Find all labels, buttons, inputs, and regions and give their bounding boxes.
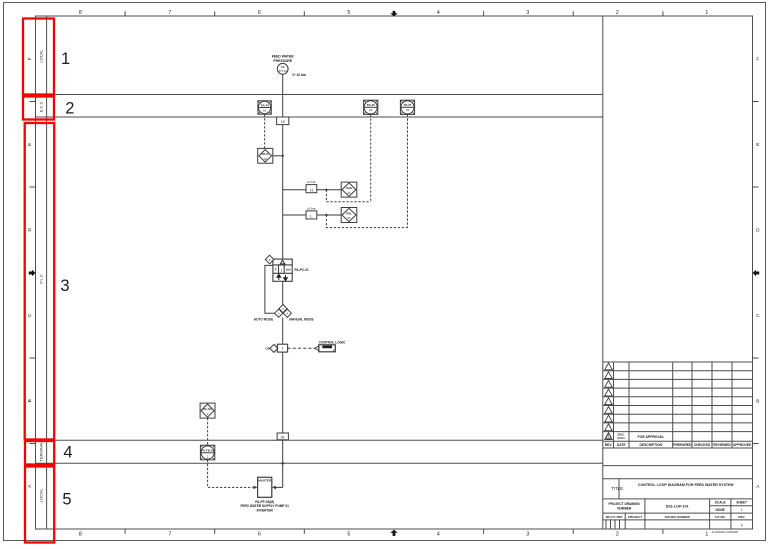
node: junction on main line [282, 155, 284, 157]
svg-text:4: 4 [437, 10, 440, 16]
svg-text:LOCAL: LOCAL [38, 488, 43, 502]
wire: box 10 down to controller [282, 125, 284, 260]
wire: dashed terminal square to MASTER box [208, 460, 254, 488]
svg-text:MASTER: MASTER [258, 479, 272, 483]
svg-text:REV.: REV. [738, 515, 745, 519]
alarm square PAH [341, 182, 357, 197]
revision header row [605, 443, 752, 447]
zone tick marks left [30, 102, 36, 444]
svg-text:DS1-LOP-101: DS1-LOP-101 [666, 505, 689, 509]
svg-text:01: 01 [263, 108, 267, 112]
svg-text:5: 5 [347, 10, 350, 16]
alarm square PAL [341, 208, 357, 223]
svg-text:5: 5 [62, 490, 71, 508]
wire: T box down to box 01 [282, 352, 284, 433]
diamond A on controller corner [265, 255, 274, 264]
ECS shared display instrument PA-PI 01 b [364, 100, 378, 114]
svg-text:K: K [275, 268, 278, 272]
node: junction L branch [325, 214, 327, 216]
svg-text:SHEET: SHEET [736, 501, 747, 505]
svg-text:2: 2 [207, 455, 209, 459]
center mark arrow top [390, 11, 398, 17]
wire: H box to alarm square [317, 189, 341, 191]
svg-text:ISSUED NUMBER: ISSUED NUMBER [665, 515, 691, 519]
swimlane label column divider [46, 16, 48, 529]
svg-text:01: 01 [348, 216, 352, 220]
svg-text:LOCAL: LOCAL [39, 49, 44, 63]
svg-text:PA-PC-01: PA-PC-01 [295, 268, 310, 272]
svg-text:PA-PI: PA-PI [261, 103, 269, 107]
svg-text:CONTROL LOOP DIAGRAM FOR FEED: CONTROL LOOP DIAGRAM FOR FEED WATER SYST… [638, 483, 734, 487]
svg-text:APPROVED: APPROVED [733, 443, 752, 447]
svg-text:2: 2 [207, 412, 209, 416]
revision triangles [605, 363, 613, 440]
svg-text:1: 1 [705, 10, 708, 16]
lower block horizontal lines [603, 465, 753, 467]
wire: L box to alarm square [317, 214, 341, 216]
wire: down-right elbow into MASTER box [276, 486, 283, 488]
multi unit row [606, 515, 745, 519]
svg-text:PA-PI: PA-PI [404, 103, 412, 107]
svg-text:6: 6 [258, 532, 261, 538]
svg-text:PA-IL: PA-IL [262, 152, 270, 156]
svg-text:7: 7 [168, 532, 171, 538]
svg-text:01: 01 [406, 108, 410, 112]
revision table column lines [613, 362, 615, 448]
swimlane rotated labels [38, 49, 43, 502]
svg-text:3: 3 [526, 10, 529, 16]
svg-text:D: D [27, 228, 33, 232]
wire: interlock to main line [273, 155, 283, 157]
svg-text:PA-PI: PA-PI [367, 103, 375, 107]
svg-text:PRESSURE: PRESSURE [273, 59, 292, 63]
zone letters left [27, 57, 33, 488]
swimlane line ECS top [36, 94, 603, 96]
title cell divider [618, 479, 620, 499]
svg-text:1: 1 [741, 508, 743, 512]
svg-text:3: 3 [526, 532, 529, 538]
ECS shared display instrument PA-PI 01 c [400, 100, 414, 114]
svg-text:H: H [310, 187, 313, 192]
revision table row lines [603, 370, 753, 372]
setpoint box H [306, 185, 317, 193]
wire: instrument a to interlock square [264, 114, 266, 148]
node: junction H branch [325, 189, 327, 191]
svg-text:6: 6 [258, 10, 261, 16]
wire: instrument b down [370, 114, 372, 201]
svg-text:d/dt: d/dt [286, 267, 291, 271]
svg-text:04.01: 04.01 [617, 436, 625, 440]
svg-text:10: 10 [281, 120, 285, 124]
dashed signal wires [265, 114, 408, 227]
svg-text:A: A [269, 258, 271, 262]
svg-text:1: 1 [61, 50, 70, 68]
wire: L alarm branch over to instrument c [326, 215, 407, 228]
svg-text:INVERTER: INVERTER [257, 509, 274, 513]
svg-text:REVIEWED: REVIEWED [713, 443, 731, 447]
svg-text:5: 5 [347, 532, 350, 538]
auto/manual selector diamond cluster [275, 305, 292, 318]
red annotation box 5 [25, 467, 54, 543]
svg-text:DATE: DATE [617, 443, 627, 447]
svg-text:MULTI UNIT: MULTI UNIT [606, 515, 623, 519]
svg-text:TERMINAL: TERMINAL [38, 441, 43, 462]
svg-text:≤2 bar: ≤2 bar [307, 207, 315, 211]
svg-text:FOR APPROVAL: FOR APPROVAL [638, 435, 665, 439]
svg-text:T: T [281, 347, 284, 351]
svg-text:D: D [756, 228, 760, 234]
svg-text:0~10 bar: 0~10 bar [293, 73, 308, 77]
wire: H alarm branch over to instrument b [326, 190, 370, 202]
svg-text:4: 4 [63, 444, 72, 462]
svg-text:C: C [27, 313, 33, 317]
svg-text:C/F NO.: C/F NO. [715, 515, 726, 519]
svg-text:01: 01 [281, 435, 285, 439]
wire: controller feedback loop to selector [265, 265, 275, 313]
svg-text:PA-SC: PA-SC [203, 407, 213, 411]
MASTER inverter box [258, 477, 272, 497]
svg-text:NONE: NONE [716, 508, 725, 512]
svg-text:A: A [286, 311, 288, 315]
wire: controller down to selector cluster [282, 281, 284, 304]
arrowhead into MASTER right [272, 486, 276, 490]
connector triangle [314, 346, 318, 350]
svg-text:PROJECT DRAWING: PROJECT DRAWING [609, 502, 641, 506]
red annotation box 4 [25, 441, 54, 465]
title block left edge [602, 16, 604, 529]
zone tick marks bottom [125, 529, 663, 534]
svg-text:01: 01 [264, 157, 268, 161]
ECS shared display instrument PA-PI 01 a [258, 101, 271, 114]
svg-text:0: 0 [741, 523, 743, 527]
svg-text:DESCRIPTION: DESCRIPTION [640, 443, 663, 447]
setpoint box L [306, 211, 317, 219]
revision table top [603, 361, 753, 363]
svg-text:FEED WATER: FEED WATER [272, 54, 295, 58]
center mark arrow left [29, 270, 36, 277]
svg-text:L: L [310, 214, 313, 219]
svg-text:CONTROL LOGIC: CONTROL LOGIC [319, 341, 346, 345]
svg-text:B: B [756, 399, 759, 405]
svg-text:F: F [27, 57, 33, 60]
wire: dashed to control logic connector [288, 347, 315, 349]
svg-text:PROJECT: PROJECT [628, 515, 642, 519]
project row dividers [644, 499, 646, 529]
svg-text:2: 2 [616, 10, 619, 16]
svg-text:/PT-01: /PT-01 [279, 69, 288, 73]
svg-text:A: A [756, 484, 760, 490]
junction box 01 [277, 433, 288, 440]
svg-text:FEED WATER SUPPLY PUMP 01: FEED WATER SUPPLY PUMP 01 [240, 504, 289, 508]
svg-text:PREPARED: PREPARED [673, 443, 692, 447]
svg-text:CHECKED: CHECKED [694, 443, 711, 447]
svg-text:2: 2 [616, 532, 619, 538]
svg-text:SCALE: SCALE [715, 501, 726, 505]
svg-text:TITLE: TITLE [611, 486, 623, 491]
svg-text:7: 7 [168, 10, 171, 16]
zone tick marks right [753, 102, 759, 444]
svg-text:8: 8 [79, 532, 82, 538]
svg-text:PAL: PAL [346, 211, 352, 215]
svg-text:REV.: REV. [605, 443, 613, 447]
control logic reference box [319, 345, 336, 352]
zone letters right [756, 57, 760, 491]
node: junction main line terminal lane [281, 462, 284, 465]
PLC output square PA-SC [200, 403, 215, 418]
wire: main line to H setpoint box [283, 189, 306, 191]
wire: dashed PLC square down to terminal square [207, 418, 209, 445]
svg-text:01: 01 [369, 108, 373, 112]
red annotation box 1 [23, 19, 54, 95]
svg-text:∫: ∫ [280, 269, 283, 273]
PID controller block PA-PC-01 [273, 259, 292, 281]
svg-text:2: 2 [65, 99, 74, 117]
junction box 10 [277, 117, 289, 125]
svg-text:F: F [756, 57, 759, 63]
wire: box 01 down through terminal lane [282, 440, 284, 488]
swimlane line TERMINAL bottom [36, 462, 603, 464]
arrowhead into MASTER left [253, 486, 257, 490]
svg-text:AUTO MODE: AUTO MODE [254, 318, 273, 322]
multi unit dividers [624, 513, 626, 529]
svg-text:A: A [27, 484, 33, 488]
svg-text:PAH: PAH [346, 186, 352, 190]
red annotation box 2 [23, 97, 54, 120]
svg-text:A: A [278, 311, 280, 315]
svg-text:PA-PP-01(M): PA-PP-01(M) [255, 500, 274, 504]
svg-text:MANUAL MODE: MANUAL MODE [289, 318, 313, 322]
red annotation box 3 [25, 123, 55, 440]
svg-text:4: 4 [437, 532, 440, 538]
zone tick marks top [125, 11, 663, 16]
svg-text:≥7 bar: ≥7 bar [307, 180, 315, 184]
svg-text:3: 3 [60, 277, 69, 295]
svg-text:1: 1 [705, 532, 708, 538]
svg-text:E.C.S: E.C.S [39, 101, 44, 112]
swimlane line ECS bottom [36, 116, 603, 118]
svg-text:E: E [756, 142, 759, 148]
svg-text:NUMBER: NUMBER [617, 506, 632, 510]
center mark arrow right [753, 270, 760, 277]
svg-text:PA-TB-01: PA-TB-01 [201, 449, 215, 453]
wire: PT down to ECS [282, 74, 284, 117]
svg-text:01: 01 [348, 191, 352, 195]
svg-text:P.L.C: P.L.C [39, 274, 44, 284]
wire: main line to L setpoint box [283, 214, 306, 216]
transmitter PT-01 circle [277, 63, 288, 74]
svg-text:C: C [756, 313, 760, 319]
center mark arrow bottom [390, 530, 398, 536]
svg-text:E: E [27, 143, 33, 146]
zone numbers top [79, 10, 709, 16]
zone numbers bottom [79, 532, 709, 538]
swimlane line TERMINAL top [36, 439, 603, 441]
interlock logic square PA-IL [258, 148, 273, 163]
svg-text:AL DESIGN & DRAWN: AL DESIGN & DRAWN [712, 530, 739, 534]
terminal instrument square [200, 445, 214, 460]
svg-text:B: B [27, 399, 33, 402]
svg-text:8: 8 [79, 10, 82, 16]
wire: cluster down to T box [282, 318, 284, 344]
wire: instrument c down [407, 114, 409, 227]
